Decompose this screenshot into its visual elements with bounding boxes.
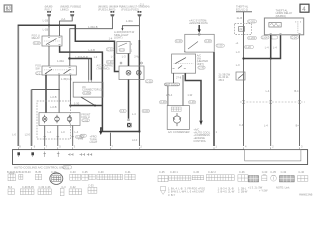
dashed connector box around lamps bbox=[37, 101, 71, 139]
noise condenser symbol (boxed X) bbox=[127, 123, 131, 127]
pin marks at dashed box bottom bbox=[43, 136, 74, 138]
wire relay pin1 to bar bbox=[270, 35, 272, 146]
svg-text:C-32: C-32 bbox=[281, 170, 287, 174]
svg-text:C-31: C-31 bbox=[125, 170, 131, 174]
pin circles at compressor box top bbox=[120, 62, 143, 64]
relay B4 (compressor relay) bbox=[117, 42, 133, 54]
pin numbers above bar (right group) bbox=[215, 145, 303, 149]
svg-text:CONNECTOR (1): CONNECTOR (1) bbox=[82, 88, 103, 92]
wire F2 continuation into relay R2 bbox=[69, 59, 71, 67]
pin numbers above bar (left group) bbox=[19, 145, 142, 149]
hood switch on x=243.5 bbox=[236, 72, 245, 80]
lamp output wires to control unit bar bbox=[45, 126, 73, 147]
wire x=243.5 down to bar bbox=[242, 12, 244, 146]
svg-text:L-0-B: L-0-B bbox=[50, 95, 57, 99]
wire B6 pin1 to connector bar bbox=[173, 73, 175, 83]
reference list text below arrow A2 bbox=[193, 128, 210, 143]
svg-text:C-4: C-4 bbox=[239, 123, 244, 127]
svg-text:C-30: C-30 bbox=[98, 170, 104, 174]
reference note and arrow into box B5 bbox=[189, 18, 208, 35]
internal symbols bbox=[43, 152, 91, 157]
svg-text:C-30: C-30 bbox=[107, 60, 113, 64]
svg-text:NOTE: Link: NOTE: Link bbox=[276, 185, 290, 189]
svg-text:C-33: C-33 bbox=[70, 170, 76, 174]
svg-text:C-30 B-35: C-30 B-35 bbox=[22, 185, 34, 189]
svg-text:2B-3: 2B-3 bbox=[219, 78, 225, 82]
relay R1 (fog lamp relay) bbox=[32, 33, 62, 46]
svg-text:L-1B: L-1B bbox=[43, 18, 49, 22]
svg-text:2. B-4 5. 2L-W: 2. B-4 5. 2L-W bbox=[218, 190, 235, 194]
svg-text:C-33: C-33 bbox=[88, 183, 94, 187]
svg-text:C-1: C-1 bbox=[36, 71, 41, 75]
svg-text:C-35: C-35 bbox=[270, 170, 276, 174]
bold wire R1 contact output to trunk bbox=[60, 46, 140, 132]
relay R2 (fog lamp switch relay) bbox=[35, 64, 76, 76]
branch arrow to A-30X bbox=[114, 19, 139, 40]
oval label C-03 right bbox=[75, 135, 83, 138]
svg-text:4. L-3 +A/C UNIT: 4. L-3 +A/C UNIT bbox=[185, 190, 205, 194]
svg-text:2W-4: 2W-4 bbox=[166, 93, 173, 97]
wire J/C diagonal to trunk bbox=[81, 97, 96, 106]
svg-text:C-04: C-04 bbox=[291, 35, 297, 39]
oval labels left of wire 114.5 bbox=[106, 47, 115, 64]
svg-text:CONTROL: CONTROL bbox=[193, 139, 206, 143]
svg-text:C-60: C-60 bbox=[143, 109, 149, 113]
svg-text:C-35: C-35 bbox=[146, 79, 152, 83]
svg-text:C-30: C-30 bbox=[107, 47, 113, 51]
wire R1 coil to R2 bbox=[48, 46, 50, 66]
svg-text:C-3: C-3 bbox=[120, 48, 125, 52]
oval labels below relay bbox=[261, 35, 298, 39]
svg-text:3. B-Y: 3. B-Y bbox=[168, 193, 175, 197]
svg-text:C-20: C-20 bbox=[245, 45, 251, 49]
svg-text:L-4: L-4 bbox=[266, 89, 270, 93]
wire B5 to bar pin (x=214) bbox=[213, 52, 215, 146]
fusible link F2 (top, x=112.4) bbox=[98, 5, 122, 17]
svg-text:RELAY: RELAY bbox=[32, 36, 41, 40]
bold wire B6 to arrow A2 bbox=[185, 73, 202, 125]
svg-text:L-0-B: L-0-B bbox=[50, 105, 57, 109]
svg-text:L-0: L-0 bbox=[61, 130, 65, 134]
svg-text:L-4: L-4 bbox=[273, 46, 277, 50]
condenser fan motor box bbox=[167, 106, 189, 134]
wire 110.4 from trunk to bar bbox=[109, 133, 111, 146]
svg-text:C-201: C-201 bbox=[248, 19, 256, 23]
svg-text:L-4: L-4 bbox=[48, 130, 52, 134]
bar entry pin stubs bbox=[18, 147, 299, 149]
svg-text:C-30 1: C-30 1 bbox=[170, 170, 178, 174]
svg-text:B-30 B-32: B-30 B-32 bbox=[7, 170, 19, 174]
svg-text:C-32: C-32 bbox=[70, 185, 76, 189]
svg-text:L-3: L-3 bbox=[111, 55, 115, 59]
svg-text:LIGHT: LIGHT bbox=[90, 140, 98, 144]
svg-text:C-33: C-33 bbox=[262, 170, 268, 174]
svg-text:L-3: L-3 bbox=[122, 55, 126, 59]
svg-text:L-4: L-4 bbox=[265, 46, 269, 50]
dashed intermediate connector line y=102 (right) bbox=[240, 101, 305, 104]
svg-text:2-W: 2-W bbox=[134, 55, 139, 59]
svg-text:C-30: C-30 bbox=[176, 39, 182, 43]
svg-text:L-4: L-4 bbox=[132, 112, 136, 116]
wire C0 down to H0 and relay R1 bbox=[48, 16, 50, 36]
connector legend row 2 shapes bbox=[8, 186, 166, 195]
connector legend row 1 labels bbox=[7, 170, 305, 174]
svg-text:B-35: B-35 bbox=[36, 170, 42, 174]
svg-text:(MU804): (MU804) bbox=[276, 14, 286, 18]
wire B4 output through compressor to ground bbox=[128, 54, 130, 119]
svg-text:(THERMO): (THERMO) bbox=[97, 66, 110, 70]
svg-text:L-4: L-4 bbox=[264, 124, 268, 128]
svg-text:LINK2): LINK2) bbox=[60, 7, 68, 11]
svg-text:L-0-B: L-0-B bbox=[89, 48, 96, 52]
svg-text:1-30A: 1-30A bbox=[57, 59, 64, 63]
svg-text:SW: SW bbox=[35, 66, 40, 70]
svg-text:C-36: C-36 bbox=[239, 170, 245, 174]
connector legend row 1 shapes bbox=[8, 173, 308, 185]
svg-text:2-A: 2-A bbox=[61, 17, 65, 21]
intermediate connector bar below B6 bbox=[165, 82, 180, 86]
wire connector bar to motor box bbox=[167, 86, 169, 106]
page marker 8J (top-left) bbox=[4, 5, 12, 13]
arrow A1 (to front turn signal) bbox=[78, 128, 103, 144]
svg-text:AW6613AB: AW6613AB bbox=[299, 193, 313, 197]
svg-text:C-30: C-30 bbox=[199, 66, 205, 70]
svg-text:C-31: C-31 bbox=[63, 165, 69, 169]
svg-text:C-202: C-202 bbox=[83, 91, 91, 95]
svg-text:A/C CONDENSER: A/C CONDENSER bbox=[168, 130, 190, 134]
svg-text:(FUS3) LINK3): (FUS3) LINK3) bbox=[98, 7, 115, 11]
wire R2 to lamp2 with branch to bar bbox=[32, 75, 60, 146]
svg-text:+ENGINE DATA: +ENGINE DATA bbox=[189, 21, 208, 25]
wire F1 to relay R1 pin bbox=[60, 16, 73, 36]
oval labels beside ground wire bbox=[120, 109, 150, 116]
joint connector J/C(1) box bbox=[73, 80, 103, 98]
svg-text:L-0: L-0 bbox=[12, 133, 16, 137]
fog lamp bracket corner bbox=[32, 89, 61, 91]
wire C3 long vertical to bar bbox=[138, 16, 140, 146]
svg-text:C-20: C-20 bbox=[217, 44, 223, 48]
front fog lamp box bbox=[39, 112, 91, 125]
bold branch y58.5 to joint connector bbox=[70, 59, 92, 81]
control unit caption bbox=[14, 165, 72, 169]
svg-text:(FUS1) (FUS2): (FUS1) (FUS2) bbox=[121, 7, 139, 11]
dashed joint connector on x=243.5 bbox=[235, 24, 252, 35]
svg-text:UNIT): UNIT) bbox=[197, 62, 204, 66]
wire B6 pin2 to motor box bbox=[182, 75, 184, 106]
connector C3 (top, x=139.5) bbox=[121, 2, 149, 16]
svg-text:L2-0: L2-0 bbox=[132, 138, 138, 142]
svg-text:1-30A-B: 1-30A-B bbox=[88, 25, 98, 29]
svg-text:+ Y-2W: + Y-2W bbox=[259, 189, 268, 193]
connector break on ground wire bbox=[127, 119, 130, 120]
svg-text:C-203: C-203 bbox=[248, 36, 256, 40]
page marker 4 (top-right) bbox=[300, 4, 309, 13]
horizontal wire y58.5 right section bbox=[244, 35, 281, 60]
svg-text:1-30A: 1-30A bbox=[126, 19, 133, 23]
svg-text:FUS 1: FUS 1 bbox=[45, 7, 53, 11]
svg-text:2?-8: 2?-8 bbox=[176, 76, 182, 80]
svg-text:L2-0: L2-0 bbox=[25, 133, 31, 137]
svg-text:B-4: B-4 bbox=[296, 124, 301, 128]
oval labels right of x=243.5 bbox=[216, 19, 257, 49]
svg-text:C-35: C-35 bbox=[82, 170, 88, 174]
svg-text:L-1B: L-1B bbox=[43, 27, 49, 31]
svg-text:C-33 C-36: C-33 C-36 bbox=[39, 185, 52, 189]
svg-text:8J: 8J bbox=[6, 7, 11, 13]
svg-text:C-03: C-03 bbox=[83, 118, 89, 122]
svg-text:B-33 B-30: B-33 B-30 bbox=[19, 170, 31, 174]
wire R2 pin3 to trunk dot bbox=[69, 75, 71, 107]
svg-text:1-30: 1-30 bbox=[74, 102, 80, 106]
theft-alarm horn relay box bbox=[264, 8, 303, 34]
fusible link F1 (top, x=72) bbox=[60, 5, 81, 17]
box B5 (A/C switch unit) bbox=[175, 34, 214, 52]
bold trunk y105.5 bbox=[70, 105, 102, 107]
terminal squares inside bar bbox=[17, 152, 20, 155]
svg-text:1-W: 1-W bbox=[187, 93, 192, 97]
svg-text:C-6: C-6 bbox=[120, 109, 125, 113]
svg-text:C-36: C-36 bbox=[189, 100, 195, 104]
svg-text:C-30: C-30 bbox=[205, 39, 211, 43]
svg-text:B-4: B-4 bbox=[294, 89, 299, 93]
svg-text:AUTO-COOLING A/C CONTROL UNIT: AUTO-COOLING A/C CONTROL UNIT bbox=[14, 166, 66, 170]
svg-text:L-05: L-05 bbox=[78, 137, 84, 141]
svg-text:LIGHT): LIGHT) bbox=[114, 36, 123, 40]
svg-text:ECU (C-1): ECU (C-1) bbox=[236, 7, 248, 11]
svg-text:2. 2B-W: 2. 2B-W bbox=[238, 190, 248, 194]
svg-text:B-3: B-3 bbox=[8, 185, 13, 189]
bold feed wire H0 bbox=[18, 25, 119, 146]
svg-text:1-4: 1-4 bbox=[109, 36, 113, 40]
pin function legend text columns bbox=[168, 185, 290, 196]
svg-text:C-10: C-10 bbox=[34, 41, 40, 45]
svg-text:1-3: 1-3 bbox=[94, 55, 98, 59]
svg-text:C-36: C-36 bbox=[160, 100, 166, 104]
svg-text:L-0: L-0 bbox=[236, 63, 240, 67]
svg-text:C-32 2: C-32 2 bbox=[208, 170, 216, 174]
svg-text:L-0: L-0 bbox=[236, 50, 240, 54]
theft-alarm feed reference (top x=243) bbox=[236, 4, 252, 11]
svg-text:C-04: C-04 bbox=[262, 35, 268, 39]
svg-text:2L-B: 2L-B bbox=[237, 16, 243, 20]
auto-cooling control unit bar bbox=[13, 150, 308, 165]
A/C compressor box (two round devices) bbox=[97, 64, 153, 84]
svg-text:C-30: C-30 bbox=[193, 170, 199, 174]
connector legend row 2 labels bbox=[8, 183, 94, 189]
svg-text:BAT COOL: BAT COOL bbox=[165, 82, 178, 86]
wire relay pin3 to bar (right long) bbox=[299, 35, 301, 146]
svg-text:C-40: C-40 bbox=[298, 170, 304, 174]
bold wire R2 to lamp1 bbox=[45, 75, 47, 113]
svg-text:L-4: L-4 bbox=[75, 130, 79, 134]
wire F2 left and down to junction dot bbox=[68, 16, 112, 59]
connector symbol C0 (top, x=49) bbox=[45, 5, 53, 17]
svg-text:C-35: C-35 bbox=[159, 170, 165, 174]
switch box B6 (blower switch) bbox=[172, 54, 209, 74]
